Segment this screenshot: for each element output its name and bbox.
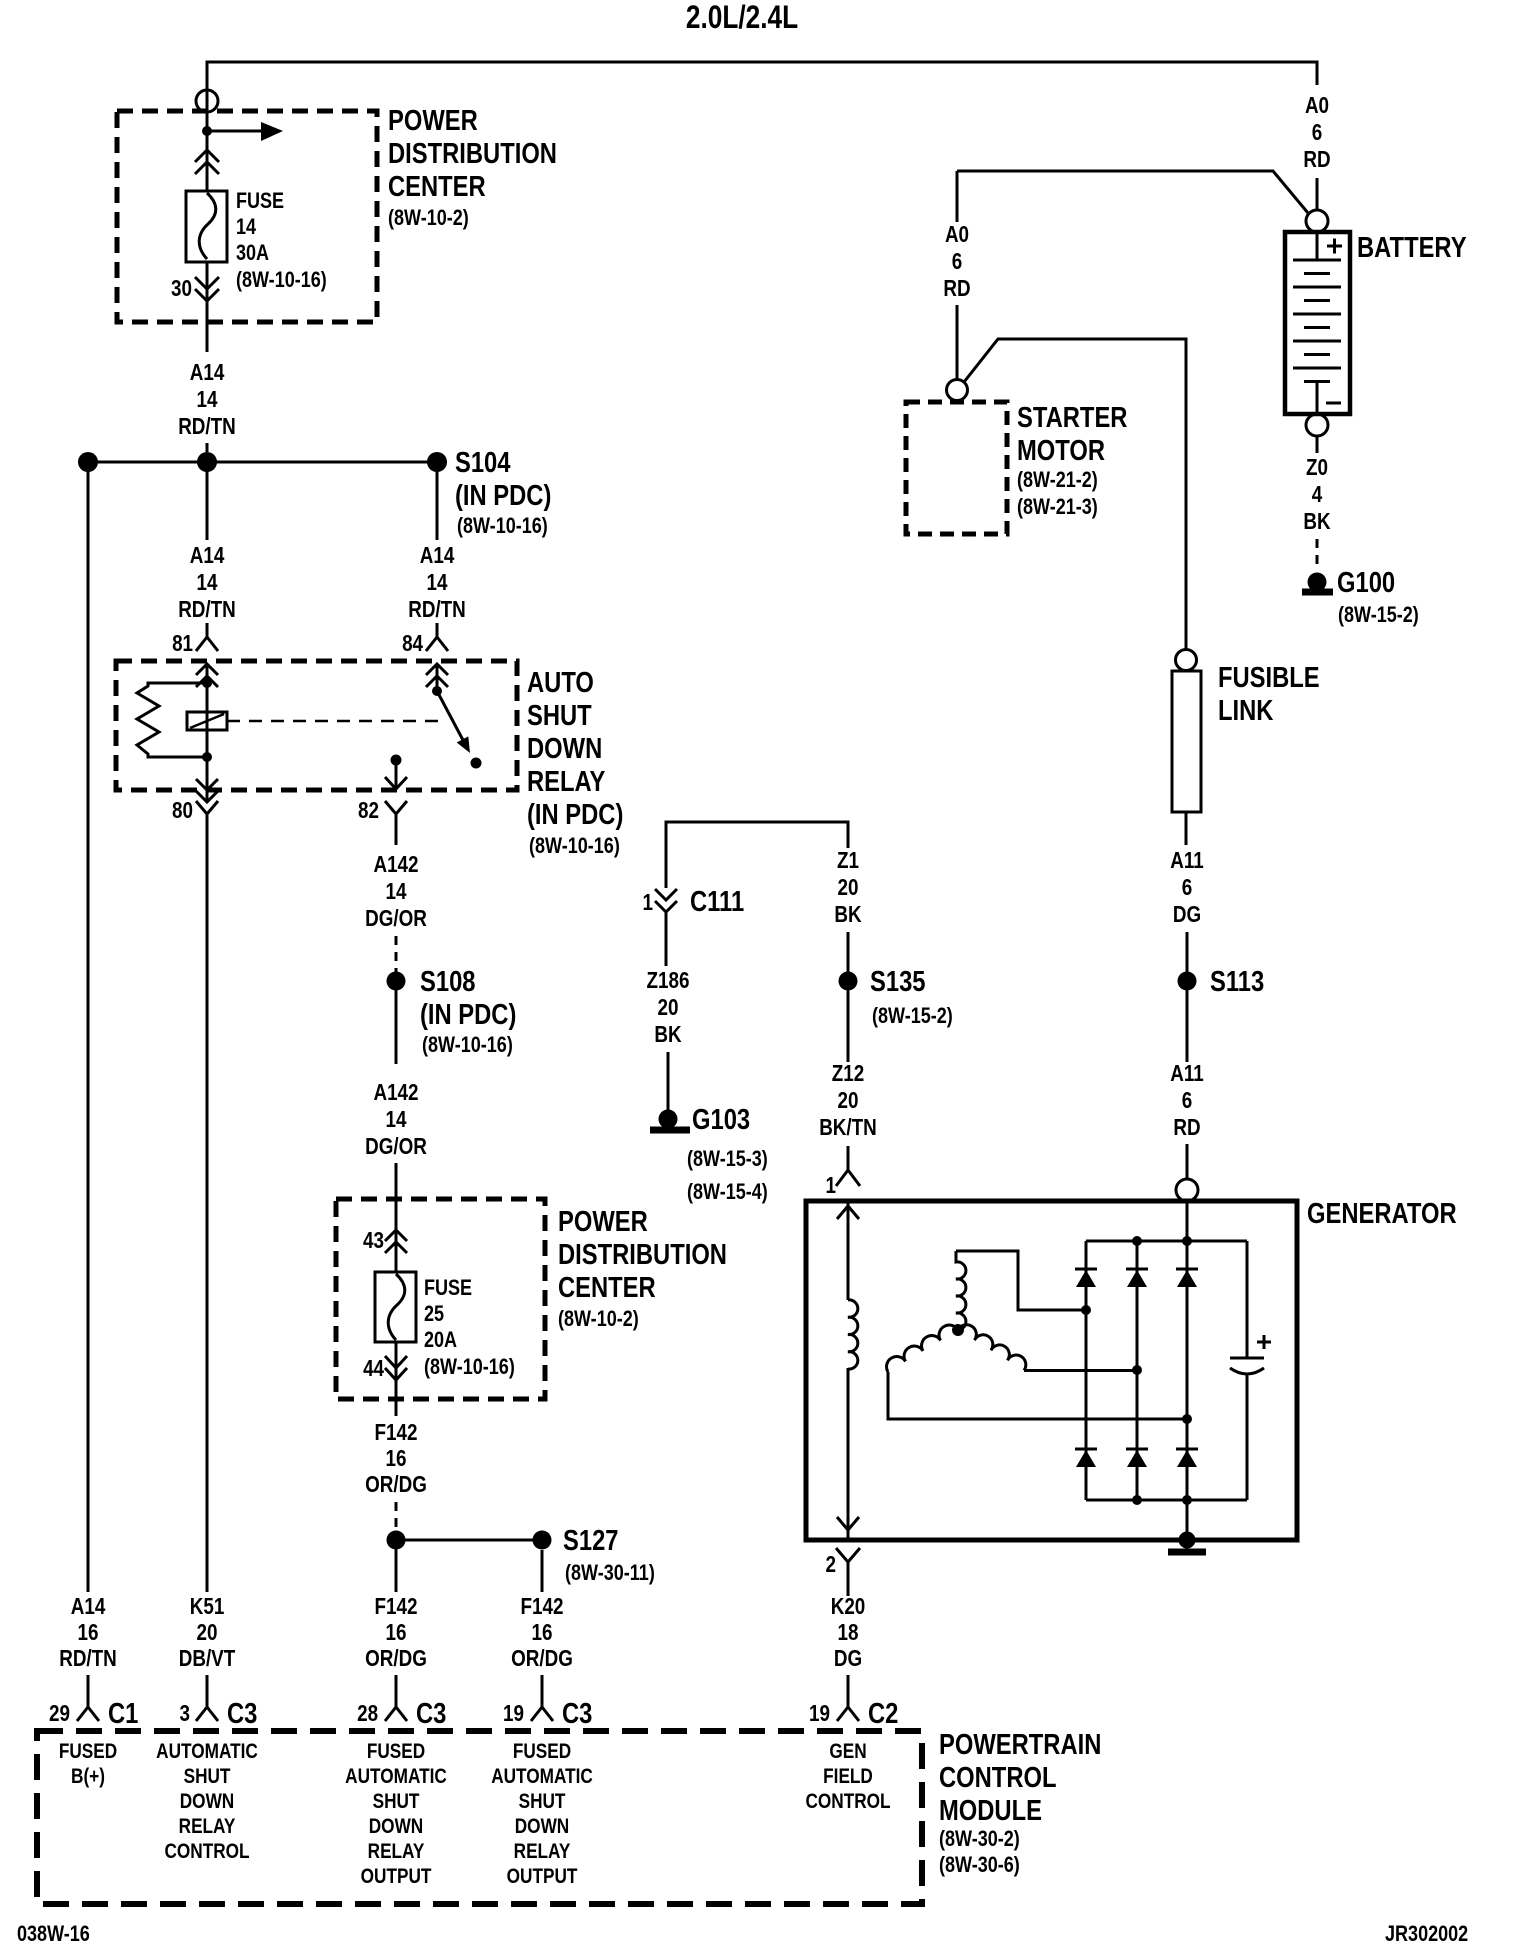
svg-text:CENTER: CENTER <box>558 1271 656 1304</box>
wire starter to fusible link <box>964 339 1186 649</box>
svg-text:RD/TN: RD/TN <box>178 414 236 439</box>
relay pin 81 entry chevrons <box>196 664 218 675</box>
svg-text:Z12: Z12 <box>832 1061 864 1086</box>
diode D3 <box>1176 1268 1198 1271</box>
svg-text:(8W-10-16): (8W-10-16) <box>424 1355 515 1379</box>
node B+ junction with arrow <box>206 112 209 191</box>
svg-text:C2: C2 <box>868 1697 898 1730</box>
svg-text:AUTOMATIC: AUTOMATIC <box>156 1741 258 1764</box>
battery terminal circle + <box>1306 210 1328 232</box>
svg-text:AUTO: AUTO <box>527 666 594 699</box>
svg-text:A14: A14 <box>190 360 225 385</box>
splice S113 <box>1178 972 1197 991</box>
svg-text:A0: A0 <box>945 222 969 247</box>
svg-text:AUTOMATIC: AUTOMATIC <box>345 1766 447 1789</box>
svg-text:DG/OR: DG/OR <box>365 906 427 931</box>
svg-text:RD: RD <box>943 276 970 301</box>
svg-text:14: 14 <box>236 215 257 239</box>
battery plus mark <box>1327 245 1342 248</box>
svg-text:RD: RD <box>1303 147 1330 172</box>
svg-text:OR/DG: OR/DG <box>511 1646 573 1671</box>
generator capacitor <box>1246 1241 1249 1358</box>
svg-text:RELAY: RELAY <box>514 1841 571 1864</box>
svg-text:A14: A14 <box>71 1594 106 1619</box>
generator rectifier top rail <box>1086 1240 1247 1243</box>
svg-text:CONTROL: CONTROL <box>164 1841 249 1864</box>
svg-text:(8W-15-2): (8W-15-2) <box>1338 603 1419 627</box>
svg-text:19: 19 <box>503 1701 524 1726</box>
relay pin 82 stem <box>391 755 402 766</box>
splice S108 <box>387 972 406 991</box>
svg-text:80: 80 <box>172 798 193 823</box>
svg-text:A14: A14 <box>190 543 225 568</box>
svg-text:4: 4 <box>1312 482 1323 507</box>
fuse F25 20A <box>375 1272 416 1342</box>
svg-text:C3: C3 <box>416 1697 446 1730</box>
wire dashed into splice S108 <box>395 936 398 972</box>
svg-text:Z1: Z1 <box>837 848 859 873</box>
svg-text:POWER: POWER <box>558 1205 648 1238</box>
svg-text:(8W-30-2): (8W-30-2) <box>939 1827 1020 1851</box>
svg-text:DOWN: DOWN <box>527 732 602 765</box>
starter motor terminal circle <box>947 380 968 401</box>
diode D6 <box>1176 1448 1198 1451</box>
svg-text:K20: K20 <box>831 1594 866 1619</box>
svg-text:BATTERY: BATTERY <box>1357 231 1467 264</box>
svg-text:FUSED: FUSED <box>513 1741 571 1764</box>
wire top bus from PDC to battery <box>207 62 1317 112</box>
svg-text:(8W-10-16): (8W-10-16) <box>457 514 548 538</box>
battery top stub <box>1316 232 1319 260</box>
svg-text:20: 20 <box>658 995 679 1020</box>
diode D4 <box>1075 1448 1097 1451</box>
relay switch arm <box>437 691 464 742</box>
svg-text:S127: S127 <box>563 1524 618 1557</box>
generator rectifier column 2 <box>1136 1241 1139 1500</box>
battery bottom stub <box>1316 382 1319 415</box>
svg-text:(8W-10-16): (8W-10-16) <box>236 268 327 292</box>
svg-text:SHUT: SHUT <box>373 1791 420 1814</box>
svg-text:14: 14 <box>427 570 448 595</box>
svg-text:20: 20 <box>838 875 859 900</box>
svg-text:DISTRIBUTION: DISTRIBUTION <box>388 137 557 170</box>
diode D2 <box>1126 1268 1148 1271</box>
splice S127 bus <box>396 1539 542 1542</box>
svg-text:BK/TN: BK/TN <box>819 1115 877 1140</box>
svg-text:BK: BK <box>834 902 861 927</box>
svg-text:14: 14 <box>386 879 407 904</box>
svg-text:CONTROL: CONTROL <box>939 1761 1056 1794</box>
fusible link <box>1176 650 1197 671</box>
svg-text:A14: A14 <box>420 543 455 568</box>
svg-text:DG: DG <box>834 1646 862 1671</box>
wire dashed into splice S104 <box>206 443 209 462</box>
svg-text:(8W-10-16): (8W-10-16) <box>529 834 620 858</box>
svg-text:A11: A11 <box>1170 1061 1204 1086</box>
fuse F14 30A <box>186 191 227 262</box>
relay linkage dashed line <box>227 720 440 723</box>
svg-text:AUTOMATIC: AUTOMATIC <box>491 1766 593 1789</box>
svg-text:MOTOR: MOTOR <box>1017 434 1105 467</box>
relay pin 84 entry chevrons <box>426 664 448 675</box>
svg-text:SHUT: SHUT <box>527 699 592 732</box>
svg-text:FUSED: FUSED <box>367 1741 425 1764</box>
svg-text:S113: S113 <box>1210 965 1264 998</box>
svg-text:RD/TN: RD/TN <box>59 1646 117 1671</box>
svg-text:DG: DG <box>1173 902 1201 927</box>
svg-text:SHUT: SHUT <box>519 1791 566 1814</box>
diode D5 <box>1126 1448 1148 1451</box>
svg-text:DB/VT: DB/VT <box>179 1646 236 1671</box>
svg-text:30A: 30A <box>236 241 269 265</box>
svg-text:44: 44 <box>363 1356 384 1381</box>
svg-text:6: 6 <box>952 249 962 274</box>
svg-text:(8W-15-2): (8W-15-2) <box>872 1004 953 1028</box>
svg-text:(8W-30-6): (8W-30-6) <box>939 1853 1020 1877</box>
svg-text:14: 14 <box>197 387 218 412</box>
generator rectifier bottom rail <box>1086 1499 1247 1502</box>
svg-text:82: 82 <box>358 798 379 823</box>
svg-text:1: 1 <box>643 890 654 915</box>
svg-text:18: 18 <box>838 1620 859 1645</box>
svg-text:038W-16: 038W-16 <box>17 1922 90 1946</box>
wire fusible link to A11 <box>1185 812 1188 845</box>
wire col E S127 to PCM <box>541 1550 544 1592</box>
svg-text:(8W-21-2): (8W-21-2) <box>1017 468 1098 492</box>
battery plates <box>1293 259 1341 262</box>
svg-text:OR/DG: OR/DG <box>365 1472 427 1497</box>
svg-text:OUTPUT: OUTPUT <box>507 1866 578 1889</box>
wire to splice S113 <box>1186 932 1189 972</box>
svg-text:POWERTRAIN: POWERTRAIN <box>939 1728 1101 1761</box>
wire S135 to Z12 <box>847 981 850 1062</box>
svg-text:81: 81 <box>172 631 193 656</box>
svg-text:30: 30 <box>171 276 192 301</box>
svg-text:FUSE: FUSE <box>424 1276 472 1300</box>
svg-text:A11: A11 <box>1170 848 1204 873</box>
svg-text:A0: A0 <box>1305 93 1329 118</box>
wire col C S127 to PCM <box>395 1540 398 1592</box>
relay pin 80 exit chevrons <box>206 757 209 800</box>
svg-text:43: 43 <box>363 1228 384 1253</box>
svg-text:C1: C1 <box>108 1697 138 1730</box>
wire Z1 to S135 <box>847 932 850 972</box>
svg-text:FUSED: FUSED <box>59 1741 117 1764</box>
svg-text:DOWN: DOWN <box>180 1791 234 1814</box>
svg-text:S108: S108 <box>420 965 475 998</box>
generator field coil <box>848 1300 858 1369</box>
svg-text:2: 2 <box>826 1552 836 1577</box>
generator stator phase B coil <box>887 1325 958 1372</box>
svg-text:20A: 20A <box>424 1328 457 1352</box>
svg-text:A142: A142 <box>373 852 418 877</box>
svg-text:16: 16 <box>386 1620 407 1645</box>
svg-text:20: 20 <box>197 1620 218 1645</box>
svg-text:CONTROL: CONTROL <box>805 1791 890 1814</box>
svg-text:14: 14 <box>386 1107 407 1132</box>
svg-text:RD/TN: RD/TN <box>178 597 236 622</box>
svg-text:3: 3 <box>180 1701 190 1726</box>
generator B+ terminal circle <box>1176 1179 1198 1201</box>
svg-text:14: 14 <box>197 570 218 595</box>
generator stator phase A coil <box>956 1251 966 1330</box>
svg-text:(8W-15-4): (8W-15-4) <box>687 1180 768 1204</box>
svg-text:16: 16 <box>386 1446 407 1471</box>
svg-text:RD/TN: RD/TN <box>408 597 466 622</box>
svg-text:16: 16 <box>532 1620 553 1645</box>
svg-text:RELAY: RELAY <box>368 1841 425 1864</box>
svg-text:(8W-21-3): (8W-21-3) <box>1017 495 1098 519</box>
svg-text:2.0L/2.4L: 2.0L/2.4L <box>686 1 798 36</box>
svg-text:F142: F142 <box>375 1594 418 1619</box>
svg-text:CENTER: CENTER <box>388 170 486 203</box>
splice S104 bus <box>88 461 437 464</box>
svg-text:C3: C3 <box>227 1697 257 1730</box>
generator stator node <box>952 1324 964 1336</box>
generator rectifier column 3 <box>1186 1202 1189 1540</box>
svg-text:F142: F142 <box>375 1420 418 1445</box>
svg-text:JR302002: JR302002 <box>1385 1922 1468 1946</box>
wire from S108 to PDC2 <box>395 981 398 1064</box>
wire A0 starter feed <box>956 171 959 222</box>
wire C111 to Z186 <box>665 912 668 966</box>
svg-text:K51: K51 <box>190 1594 225 1619</box>
battery box <box>1285 232 1350 414</box>
svg-text:RELAY: RELAY <box>527 765 606 798</box>
wire left branch down from S104 <box>87 462 90 1592</box>
relay coil box <box>187 712 227 730</box>
starter motor box <box>906 402 1007 534</box>
svg-text:BK: BK <box>1303 509 1330 534</box>
generator field winding line <box>847 1201 850 1300</box>
svg-text:25: 25 <box>424 1302 444 1326</box>
svg-text:OUTPUT: OUTPUT <box>361 1866 432 1889</box>
generator stator phase C coil <box>958 1325 1026 1371</box>
svg-text:(IN PDC): (IN PDC) <box>527 798 623 831</box>
wire to starter terminal <box>956 305 959 379</box>
svg-text:G100: G100 <box>1337 566 1395 599</box>
wire S113 to A11 RD <box>1186 981 1189 1062</box>
svg-text:6: 6 <box>1182 875 1192 900</box>
wire col C from relay pin 82 <box>395 830 398 845</box>
wire into PDC2 <box>395 1163 398 1272</box>
svg-text:G103: G103 <box>692 1103 750 1136</box>
svg-text:(IN PDC): (IN PDC) <box>455 479 551 512</box>
svg-text:RELAY: RELAY <box>179 1816 236 1839</box>
relay coil resistor <box>137 683 207 757</box>
svg-text:S104: S104 <box>455 446 511 479</box>
svg-text:OR/DG: OR/DG <box>365 1646 427 1671</box>
svg-text:C3: C3 <box>562 1697 592 1730</box>
svg-text:(8W-10-16): (8W-10-16) <box>422 1033 513 1057</box>
svg-text:A142: A142 <box>373 1080 418 1105</box>
generator internal ground <box>1179 1532 1196 1549</box>
svg-text:B(+): B(+) <box>71 1766 105 1789</box>
svg-text:RD: RD <box>1173 1115 1200 1140</box>
svg-text:FUSE: FUSE <box>236 189 284 213</box>
svg-text:S135: S135 <box>870 965 925 998</box>
wire battery drop <box>1316 178 1319 210</box>
svg-text:(8W-15-3): (8W-15-3) <box>687 1147 768 1171</box>
svg-text:(8W-10-2): (8W-10-2) <box>388 206 469 230</box>
wire col B from relay to PCM <box>206 830 209 1592</box>
auto shut down relay box <box>116 661 517 790</box>
generator rectifier column 1 <box>1085 1241 1088 1500</box>
pin chevrons into fuse 14 <box>195 150 219 162</box>
svg-text:LINK: LINK <box>1218 694 1273 727</box>
svg-text:20: 20 <box>838 1088 859 1113</box>
svg-text:6: 6 <box>1182 1088 1192 1113</box>
ground G100 <box>1308 573 1327 592</box>
power distribution center box 2 <box>336 1199 545 1399</box>
svg-text:DISTRIBUTION: DISTRIBUTION <box>558 1238 727 1271</box>
svg-text:GEN: GEN <box>829 1741 866 1764</box>
svg-text:FIELD: FIELD <box>823 1766 873 1789</box>
svg-text:C111: C111 <box>690 885 744 918</box>
battery terminal circle - <box>1306 414 1328 436</box>
wire to generator B+ <box>1186 1144 1189 1180</box>
svg-text:BK: BK <box>654 1022 681 1047</box>
svg-text:16: 16 <box>78 1620 99 1645</box>
svg-text:F142: F142 <box>521 1594 564 1619</box>
svg-text:FUSIBLE: FUSIBLE <box>1218 661 1320 694</box>
splice S135 <box>839 972 858 991</box>
svg-text:6: 6 <box>1312 120 1322 145</box>
svg-text:MODULE: MODULE <box>939 1794 1042 1827</box>
wire battery negative <box>1316 436 1319 453</box>
svg-text:POWER: POWER <box>388 104 478 137</box>
powertrain control module box <box>37 1731 922 1904</box>
svg-text:1: 1 <box>826 1173 837 1198</box>
wire middle branch down from S104 <box>206 462 209 540</box>
wire right branch down from S104 <box>436 472 439 540</box>
svg-text:(8W-10-2): (8W-10-2) <box>558 1307 639 1331</box>
terminal circle on PDC1 <box>196 90 218 112</box>
wire dashed to ground G100 <box>1316 539 1319 568</box>
svg-text:Z0: Z0 <box>1306 455 1328 480</box>
wire to ground G103 <box>667 1052 670 1110</box>
svg-text:STARTER: STARTER <box>1017 401 1127 434</box>
ground G103 <box>659 1110 678 1129</box>
generator box <box>806 1201 1297 1540</box>
power distribution center box 1 <box>117 111 377 322</box>
svg-text:(IN PDC): (IN PDC) <box>420 998 516 1031</box>
wire starter branch horizontal <box>957 171 1308 213</box>
svg-text:SHUT: SHUT <box>184 1766 231 1789</box>
wire C111 jumper <box>666 822 848 888</box>
svg-text:DOWN: DOWN <box>515 1816 569 1839</box>
diode D1 <box>1075 1268 1097 1271</box>
svg-text:(8W-30-11): (8W-30-11) <box>565 1561 655 1585</box>
svg-text:Z186: Z186 <box>647 968 690 993</box>
svg-text:DOWN: DOWN <box>369 1816 423 1839</box>
svg-text:19: 19 <box>809 1701 830 1726</box>
svg-text:GENERATOR: GENERATOR <box>1307 1197 1457 1230</box>
svg-text:28: 28 <box>357 1701 378 1726</box>
svg-text:84: 84 <box>402 631 423 656</box>
battery minus mark <box>1326 402 1341 405</box>
wire dashed into splice S127 <box>395 1502 398 1532</box>
svg-text:29: 29 <box>49 1701 70 1726</box>
svg-text:DG/OR: DG/OR <box>365 1134 427 1159</box>
